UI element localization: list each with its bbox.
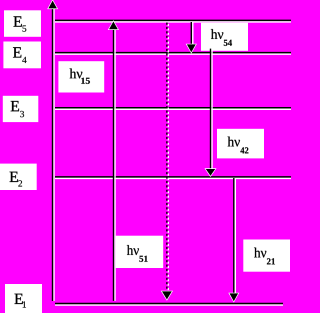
label box E5: [4, 10, 41, 37]
label box hv51: [116, 236, 164, 268]
dashed emission arrow hv51 (E5 to E1, down): [162, 23, 172, 300]
label box E3: [3, 96, 39, 122]
label box hv15: [58, 61, 104, 92]
label box E2: [0, 164, 37, 190]
label box E1: [5, 284, 42, 313]
absorption arrow hv15 (E1 to E5, up): [109, 22, 118, 301]
level line E3: [55, 108, 291, 110]
label box E4: [3, 42, 41, 69]
level line E4: [55, 53, 291, 55]
emission arrow hv54 (E5 to E4, down): [187, 22, 196, 52]
level line E2: [55, 177, 291, 179]
label box hv42: [217, 129, 264, 159]
label box hv54: [201, 23, 248, 51]
emission arrow hv42 (E4 to E2, down): [206, 49, 215, 176]
energy axis with up arrowhead: [48, 1, 57, 301]
emission arrow hv21 (E2 to E1, down): [230, 178, 239, 301]
label box hv21: [243, 240, 290, 272]
level line E5: [55, 20, 291, 22]
level line E1: [55, 304, 283, 306]
